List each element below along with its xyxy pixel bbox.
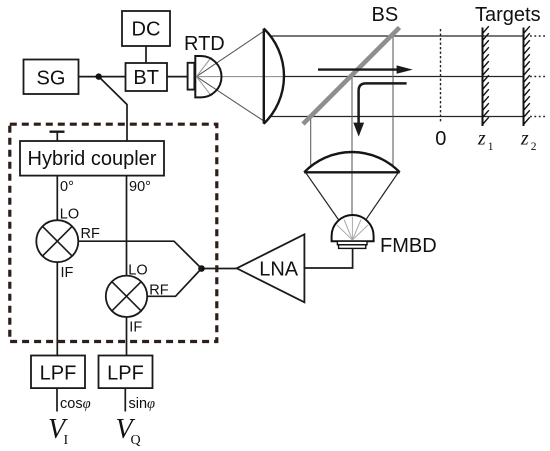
svg-text:Q: Q xyxy=(131,433,141,448)
dashed reference line 0 xyxy=(440,29,442,123)
svg-text:RF: RF xyxy=(81,226,100,242)
svg-text:LPF: LPF xyxy=(107,362,144,384)
lens 1 (collimating lens) xyxy=(263,29,265,124)
beam splitter BS xyxy=(303,28,400,125)
wire mixer2 RF to junction xyxy=(147,269,201,297)
svg-text:SG: SG xyxy=(37,67,66,89)
svg-text:FMBD: FMBD xyxy=(380,235,437,257)
beam vertical middle axis xyxy=(351,77,353,239)
box LPF1 xyxy=(31,356,85,389)
svg-text:IF: IF xyxy=(61,265,74,281)
svg-text:LNA: LNA xyxy=(259,259,299,281)
wire LPF1 output xyxy=(56,388,58,411)
svg-text:IF: IF xyxy=(129,319,142,335)
wire mixer2 IF to LPF2 xyxy=(126,317,128,356)
svg-text:cosφ: cosφ xyxy=(60,396,91,412)
svg-text:LPF: LPF xyxy=(40,362,77,384)
wire FMBD to LNA xyxy=(304,248,352,268)
box LPF2 xyxy=(99,356,153,389)
wire junction to hybrid coupler input xyxy=(99,77,127,141)
wire dot to LNA xyxy=(202,268,238,270)
converging rays into FMBD xyxy=(306,172,353,239)
beam vertical left (reflected bottom beam) xyxy=(310,117,312,167)
svg-text:z: z xyxy=(520,129,529,150)
lens 2 (focusing lens) xyxy=(304,171,400,173)
svg-text:Hybrid coupler: Hybrid coupler xyxy=(28,148,157,170)
box Hybrid coupler xyxy=(20,141,164,176)
svg-text:LO: LO xyxy=(128,263,147,279)
svg-text:0°: 0° xyxy=(60,179,74,195)
FMBD base plates xyxy=(337,241,367,245)
wire mixer1 RF to junction xyxy=(78,241,201,268)
beam dotted continuations after targets xyxy=(530,36,548,117)
target 2 hatched bar xyxy=(523,28,525,127)
target 1 hatched bar xyxy=(482,28,484,127)
beam middle horizontal xyxy=(284,76,523,78)
svg-text:BS: BS xyxy=(372,4,399,26)
beam top horizontal xyxy=(271,35,523,37)
rays from RTD to lens xyxy=(197,31,284,121)
svg-text:sinφ: sinφ xyxy=(129,396,156,412)
RTD chip rectangle xyxy=(188,63,195,90)
node junction dot at LNA input xyxy=(198,265,205,272)
box SG xyxy=(24,60,79,95)
rays inside FMBD dome xyxy=(337,217,368,241)
box BT xyxy=(126,63,168,91)
svg-text:BT: BT xyxy=(133,67,159,89)
svg-text:LO: LO xyxy=(60,207,79,223)
RTD lens dome xyxy=(195,56,221,97)
arrow down (reflected beam) xyxy=(359,83,407,123)
wire HC 90deg to mixer2 xyxy=(126,176,128,276)
svg-text:I: I xyxy=(64,433,69,448)
FMBD dome xyxy=(332,215,374,241)
wire mixer1 IF to LPF1 xyxy=(56,262,58,355)
wire DC to BT xyxy=(145,46,147,63)
op-amp LNA xyxy=(237,234,305,302)
svg-text:1: 1 xyxy=(488,141,494,153)
wire LPF2 output xyxy=(124,388,126,411)
svg-text:DC: DC xyxy=(132,19,161,41)
termination on hybrid coupler xyxy=(56,132,58,141)
mixer M1 xyxy=(36,220,78,262)
box DC xyxy=(122,11,170,46)
beam vertical right (reflected top beam) xyxy=(392,36,394,166)
dashed box (IQ demodulator) xyxy=(10,124,217,341)
node junction dot at SG output xyxy=(96,73,102,79)
wire BT to RTD xyxy=(167,76,188,78)
svg-text:90°: 90° xyxy=(129,179,151,195)
svg-text:0: 0 xyxy=(435,128,446,150)
wire HC 0deg to mixer1 xyxy=(56,176,58,221)
svg-text:Targets: Targets xyxy=(475,4,541,26)
arrow right (outgoing beam) xyxy=(318,68,399,70)
wire SG to BT xyxy=(79,76,126,78)
svg-text:2: 2 xyxy=(531,141,537,153)
svg-text:RTD: RTD xyxy=(184,33,225,55)
beam bottom horizontal xyxy=(271,116,523,118)
svg-text:z: z xyxy=(477,129,486,150)
mixer M2 xyxy=(106,276,147,317)
